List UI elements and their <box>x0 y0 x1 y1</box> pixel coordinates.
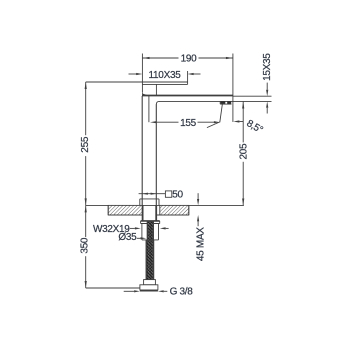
ext line right of 190 down to spout tip <box>232 54 234 122</box>
ext line left (190/110X35) <box>141 54 143 93</box>
deck slab hatched left <box>108 205 142 215</box>
diameter35 arrow <box>137 237 146 239</box>
hose collar <box>144 280 156 285</box>
ext spout top to 15X35 <box>233 95 272 97</box>
deck top line <box>86 204 244 206</box>
dim 8,5deg arrow <box>233 120 243 122</box>
svg-text:155: 155 <box>180 118 197 129</box>
ext line 155 left <box>148 96 150 123</box>
G38 right arrow <box>158 290 167 292</box>
dim 45MAX lower arrow <box>197 215 199 226</box>
svg-text:205: 205 <box>238 143 249 160</box>
hose crimp <box>146 240 154 242</box>
flexible hose braided <box>146 240 153 280</box>
dim 350 line <box>85 205 87 288</box>
dim 190 line <box>143 57 233 59</box>
dim 205 line <box>242 102 244 206</box>
spout bottom rounded corner <box>156 101 159 104</box>
deck slab hatched right <box>160 205 189 215</box>
svg-text:255: 255 <box>80 136 91 153</box>
ext line right (110X35) / blade end cap <box>187 71 189 84</box>
svg-text:G 3/8: G 3/8 <box>170 287 194 298</box>
lever post edge <box>155 84 157 95</box>
deck left cap <box>107 205 109 215</box>
G38 left arrow <box>124 290 140 292</box>
flange washer <box>141 221 160 224</box>
svg-text:110X35: 110X35 <box>149 70 182 81</box>
svg-text:190: 190 <box>181 54 198 65</box>
deck right cap <box>188 205 190 215</box>
dim 155 <box>150 121 220 123</box>
square50 label <box>165 190 183 201</box>
spout top edge <box>142 95 233 97</box>
dim 255 line <box>85 82 87 205</box>
base plinth <box>140 199 159 206</box>
W32X19 left arrow <box>130 227 141 229</box>
dim square50 <box>139 193 166 195</box>
dim 45MAX upper stub <box>197 193 199 205</box>
W32X19 right arrow <box>160 227 169 229</box>
deck bottom line <box>108 214 189 216</box>
body column left edge <box>141 96 143 205</box>
shank through deck left <box>142 205 144 221</box>
lever blade bottom <box>142 83 187 85</box>
lock nut <box>142 224 159 240</box>
svg-text:15X35: 15X35 <box>262 53 273 81</box>
dim 15X35 <box>266 83 268 114</box>
spout bottom edge and ext <box>159 100 272 102</box>
aerator axis slant (8.5 deg) <box>220 104 223 123</box>
ext line hose end <box>86 287 140 289</box>
slash through 155 arrow <box>207 122 220 128</box>
lever blade top <box>86 81 188 83</box>
aerator <box>221 102 226 104</box>
body column right edge <box>155 104 157 205</box>
dim 110X35 arrows <box>129 73 201 75</box>
svg-text:Ø35: Ø35 <box>118 232 137 243</box>
body top-left chamfer <box>142 91 149 96</box>
threaded section crosshatch <box>147 222 153 240</box>
svg-text:350: 350 <box>80 237 91 254</box>
svg-text:50: 50 <box>172 190 183 201</box>
shank through deck right <box>155 205 157 221</box>
svg-text:45 MAX: 45 MAX <box>196 227 207 261</box>
hose end fitting <box>140 285 158 291</box>
